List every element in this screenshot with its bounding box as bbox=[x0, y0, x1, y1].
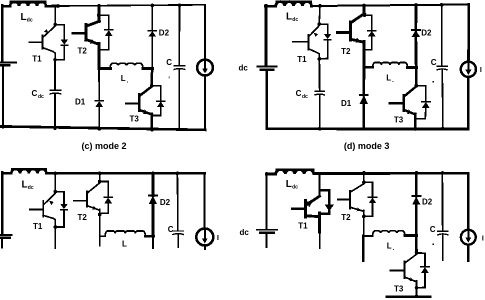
svg-text:T1: T1 bbox=[297, 55, 307, 64]
svg-text:D1: D1 bbox=[341, 99, 352, 108]
svg-text:C: C bbox=[168, 225, 174, 234]
svg-text:(c) mode 2: (c) mode 2 bbox=[82, 141, 127, 151]
svg-text:dc: dc bbox=[239, 64, 249, 73]
svg-text:L: L bbox=[121, 74, 126, 83]
svg-text:L: L bbox=[286, 12, 292, 23]
svg-text:I: I bbox=[217, 233, 219, 242]
svg-text:C: C bbox=[430, 225, 436, 234]
svg-text:.: . bbox=[393, 246, 395, 252]
svg-text:D1: D1 bbox=[75, 97, 86, 106]
svg-text:dc: dc bbox=[292, 185, 298, 191]
svg-text:dc: dc bbox=[302, 94, 308, 100]
svg-text:L: L bbox=[387, 241, 392, 250]
svg-text:T2: T2 bbox=[78, 213, 88, 222]
svg-text:.: . bbox=[127, 79, 129, 85]
svg-text:L: L bbox=[386, 73, 391, 82]
svg-text:L: L bbox=[122, 239, 127, 248]
svg-text:D2: D2 bbox=[159, 29, 170, 38]
svg-text:T3: T3 bbox=[130, 114, 140, 123]
svg-text:L: L bbox=[21, 12, 27, 23]
svg-text:,: , bbox=[168, 74, 170, 80]
svg-text:C: C bbox=[296, 89, 302, 98]
svg-text:D2: D2 bbox=[160, 198, 171, 207]
svg-text:T1: T1 bbox=[32, 55, 42, 64]
svg-text:T2: T2 bbox=[78, 47, 88, 56]
svg-text:T1: T1 bbox=[298, 222, 308, 231]
svg-text:T3: T3 bbox=[394, 285, 404, 294]
svg-text:.: . bbox=[392, 78, 394, 84]
svg-text:T2: T2 bbox=[341, 47, 351, 56]
svg-text:I: I bbox=[480, 67, 482, 74]
svg-text:T1: T1 bbox=[33, 222, 43, 231]
svg-text:C: C bbox=[32, 89, 38, 98]
svg-text:L: L bbox=[286, 179, 292, 190]
svg-text:C: C bbox=[431, 58, 437, 67]
svg-text:dc: dc bbox=[28, 185, 34, 191]
svg-text:dc: dc bbox=[240, 228, 250, 237]
svg-text:dc: dc bbox=[292, 17, 298, 23]
svg-text:D2: D2 bbox=[422, 198, 433, 207]
svg-text:D2: D2 bbox=[421, 28, 432, 37]
svg-text:T3: T3 bbox=[394, 116, 404, 125]
svg-text:dc: dc bbox=[27, 18, 33, 24]
svg-text:T2: T2 bbox=[341, 213, 351, 222]
svg-text:L: L bbox=[22, 179, 28, 190]
svg-text:(d) mode 3: (d) mode 3 bbox=[344, 141, 390, 151]
svg-text:C: C bbox=[166, 58, 172, 67]
svg-text:I: I bbox=[482, 235, 484, 242]
svg-text:dc: dc bbox=[38, 94, 44, 100]
